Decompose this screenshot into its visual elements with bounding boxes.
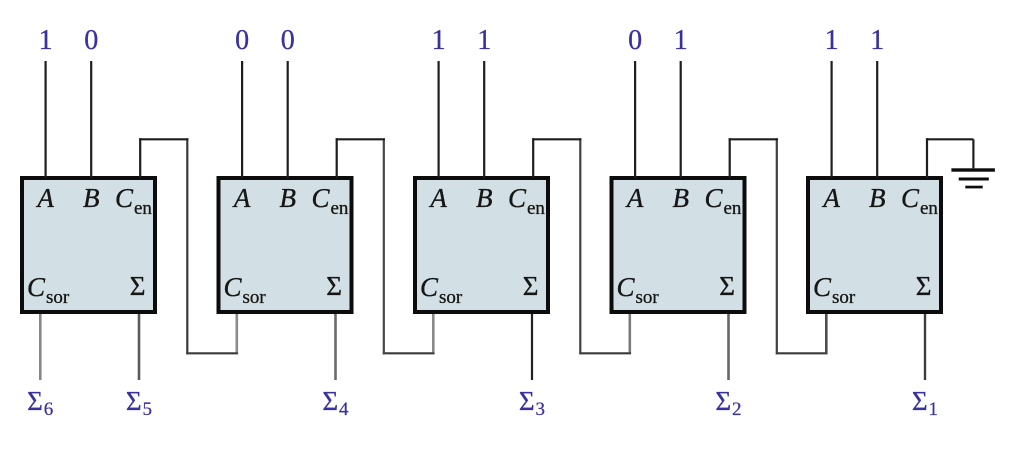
svg-text:A: A [428,183,447,213]
svg-text:Σ: Σ [715,386,731,416]
carry wire vertical riser [776,138,778,354]
svg-text:1: 1 [477,25,491,56]
svg-text:6: 6 [44,399,54,420]
full-adder block FA4 [612,178,745,312]
carry wire vertical riser [579,138,581,354]
svg-text:Σ: Σ [130,271,146,301]
svg-text:C: C [27,272,46,302]
svg-text:2: 2 [732,399,742,420]
carry stub below Csor of FA3 [432,314,435,352]
input A wire of FA4 [634,61,636,178]
full-adder block FA1 [22,178,155,312]
carry wire vertical riser [186,138,188,354]
Cen input stub of FA5 [926,138,928,178]
svg-text:C: C [115,183,134,213]
carry wire vertical riser [383,138,385,354]
svg-text:sor: sor [636,287,660,308]
svg-text:B: B [869,183,886,213]
carry stub below Csor of FA2 [236,314,239,352]
svg-text:sor: sor [46,287,70,308]
svg-text:1: 1 [929,399,939,420]
svg-text:C: C [705,183,724,213]
svg-text:sor: sor [243,287,267,308]
sum output wire of FA2 [334,314,337,380]
carry wire FA3 Csor to FA2 Cen: bottom horizontal [383,352,435,354]
carry stub below Csor of FA4 [628,314,631,352]
Cen input stub of FA4 [729,138,731,178]
carry wire FA2 Csor to FA1 Cen: bottom horizontal [186,352,238,354]
sum output wire of FA4 [727,314,730,380]
svg-text:en: en [331,198,349,219]
svg-text:C: C [813,272,832,302]
svg-text:A: A [821,183,840,213]
svg-text:A: A [35,183,54,213]
sum output wire of FA1 [138,314,141,380]
Cen input stub of FA2 [336,138,338,178]
svg-text:Σ: Σ [719,271,735,301]
svg-text:1: 1 [674,25,688,56]
svg-text:1: 1 [870,25,884,56]
svg-text:5: 5 [143,399,153,420]
svg-text:A: A [232,183,251,213]
svg-text:sor: sor [832,287,856,308]
full-adder block FA3 [415,178,548,312]
sum output wire of FA5 [924,314,926,380]
svg-text:0: 0 [235,25,249,56]
svg-text:en: en [724,198,742,219]
svg-text:C: C [901,183,920,213]
input A wire of FA2 [241,61,243,178]
output label Sigma4 [322,386,349,420]
svg-text:Σ: Σ [519,386,535,416]
svg-text:B: B [672,183,689,213]
carry wire top horizontal [139,138,188,140]
svg-text:en: en [134,198,152,219]
carry stub below Csor of FA5 [825,314,828,352]
svg-text:Σ: Σ [27,386,43,416]
svg-text:1: 1 [39,25,53,56]
wire Cen FA5 to ground: horizontal [926,138,973,140]
svg-text:en: en [920,198,938,219]
full-adder block FA2 [219,178,352,312]
input A wire of FA5 [830,61,832,178]
svg-text:A: A [625,183,644,213]
svg-text:B: B [83,183,100,213]
svg-text:0: 0 [628,25,642,56]
svg-text:4: 4 [339,399,349,420]
carry wire top horizontal [729,138,778,140]
svg-text:C: C [224,272,243,302]
input B wire of FA5 [876,61,878,178]
carry wire top horizontal [532,138,581,140]
input B wire of FA4 [680,61,682,178]
wire to ground: vertical drop [972,139,974,168]
svg-text:1: 1 [825,25,839,56]
output label Sigma1 [912,386,938,420]
svg-text:3: 3 [536,399,546,420]
svg-text:Σ: Σ [523,271,539,301]
svg-text:0: 0 [84,25,98,56]
input B wire of FA2 [287,61,289,178]
output label Sigma2 [715,386,741,420]
svg-text:C: C [617,272,636,302]
svg-text:C: C [312,183,331,213]
Cen input stub of FA3 [532,138,534,178]
svg-text:0: 0 [281,25,295,56]
svg-text:en: en [527,198,545,219]
carry wire FA5 Csor to FA4 Cen: bottom horizontal [776,352,828,354]
svg-text:Σ: Σ [322,386,338,416]
input B wire of FA3 [483,61,485,178]
ground symbol [951,168,995,188]
full-adder block FA5 [808,178,941,312]
svg-text:C: C [420,272,439,302]
svg-text:Σ: Σ [126,386,142,416]
svg-text:B: B [279,183,296,213]
carry wire top horizontal [336,138,385,140]
input B wire of FA1 [90,61,92,178]
output label Sigma6 [27,386,53,420]
svg-text:sor: sor [439,287,463,308]
sum output wire of FA3 [531,314,533,380]
svg-text:B: B [476,183,493,213]
svg-text:C: C [508,183,527,213]
svg-text:1: 1 [432,25,446,56]
input A wire of FA1 [44,61,46,178]
carry wire FA4 Csor to FA3 Cen: bottom horizontal [579,352,631,354]
Cen input stub of FA1 [139,138,141,178]
svg-text:Σ: Σ [912,386,928,416]
input A wire of FA3 [438,61,440,178]
svg-text:Σ: Σ [916,271,932,301]
output label Sigma5 [126,386,152,420]
carry output wire Csor of FA1 (final carry) [39,314,42,380]
svg-text:Σ: Σ [326,271,342,301]
output label Sigma3 [519,386,545,420]
